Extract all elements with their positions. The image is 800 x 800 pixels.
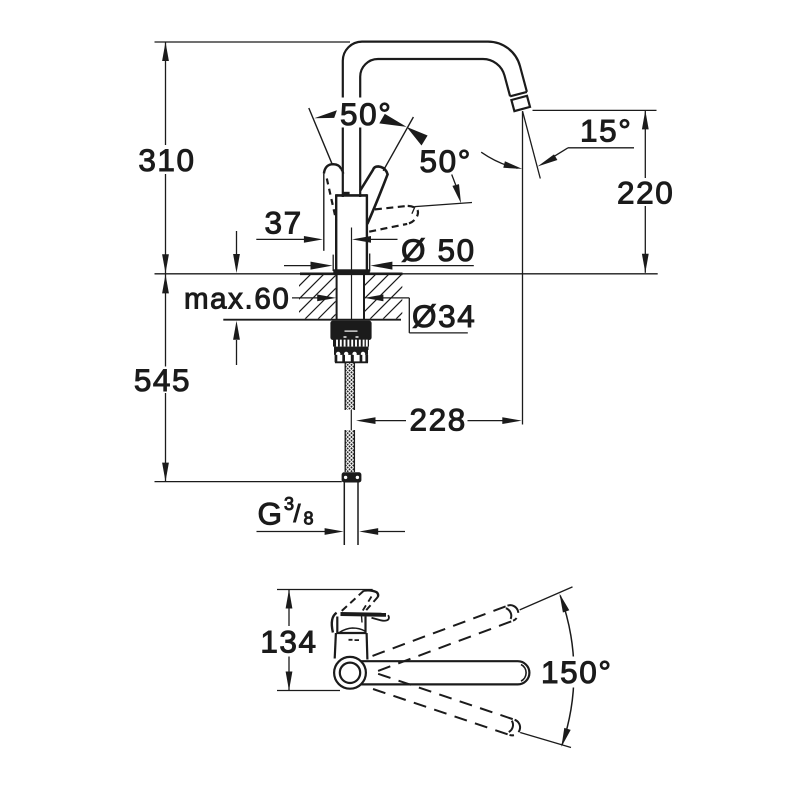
svg-text:37: 37 — [265, 205, 303, 241]
svg-text:310: 310 — [138, 142, 195, 178]
svg-text:220: 220 — [617, 175, 674, 211]
svg-text:max.60: max.60 — [184, 283, 290, 316]
svg-text:50°: 50° — [420, 143, 472, 179]
svg-text:G: G — [258, 495, 284, 531]
svg-text:Ø 50: Ø 50 — [401, 232, 476, 268]
svg-text:Ø34: Ø34 — [412, 298, 476, 334]
svg-text:545: 545 — [134, 362, 191, 398]
svg-text:15°: 15° — [580, 113, 632, 149]
svg-text:150°: 150° — [541, 654, 613, 690]
svg-text:50°: 50° — [340, 96, 392, 132]
svg-text:134: 134 — [260, 624, 317, 660]
svg-text:228: 228 — [410, 402, 467, 438]
svg-text:/: / — [294, 500, 303, 528]
svg-text:8: 8 — [304, 509, 316, 529]
